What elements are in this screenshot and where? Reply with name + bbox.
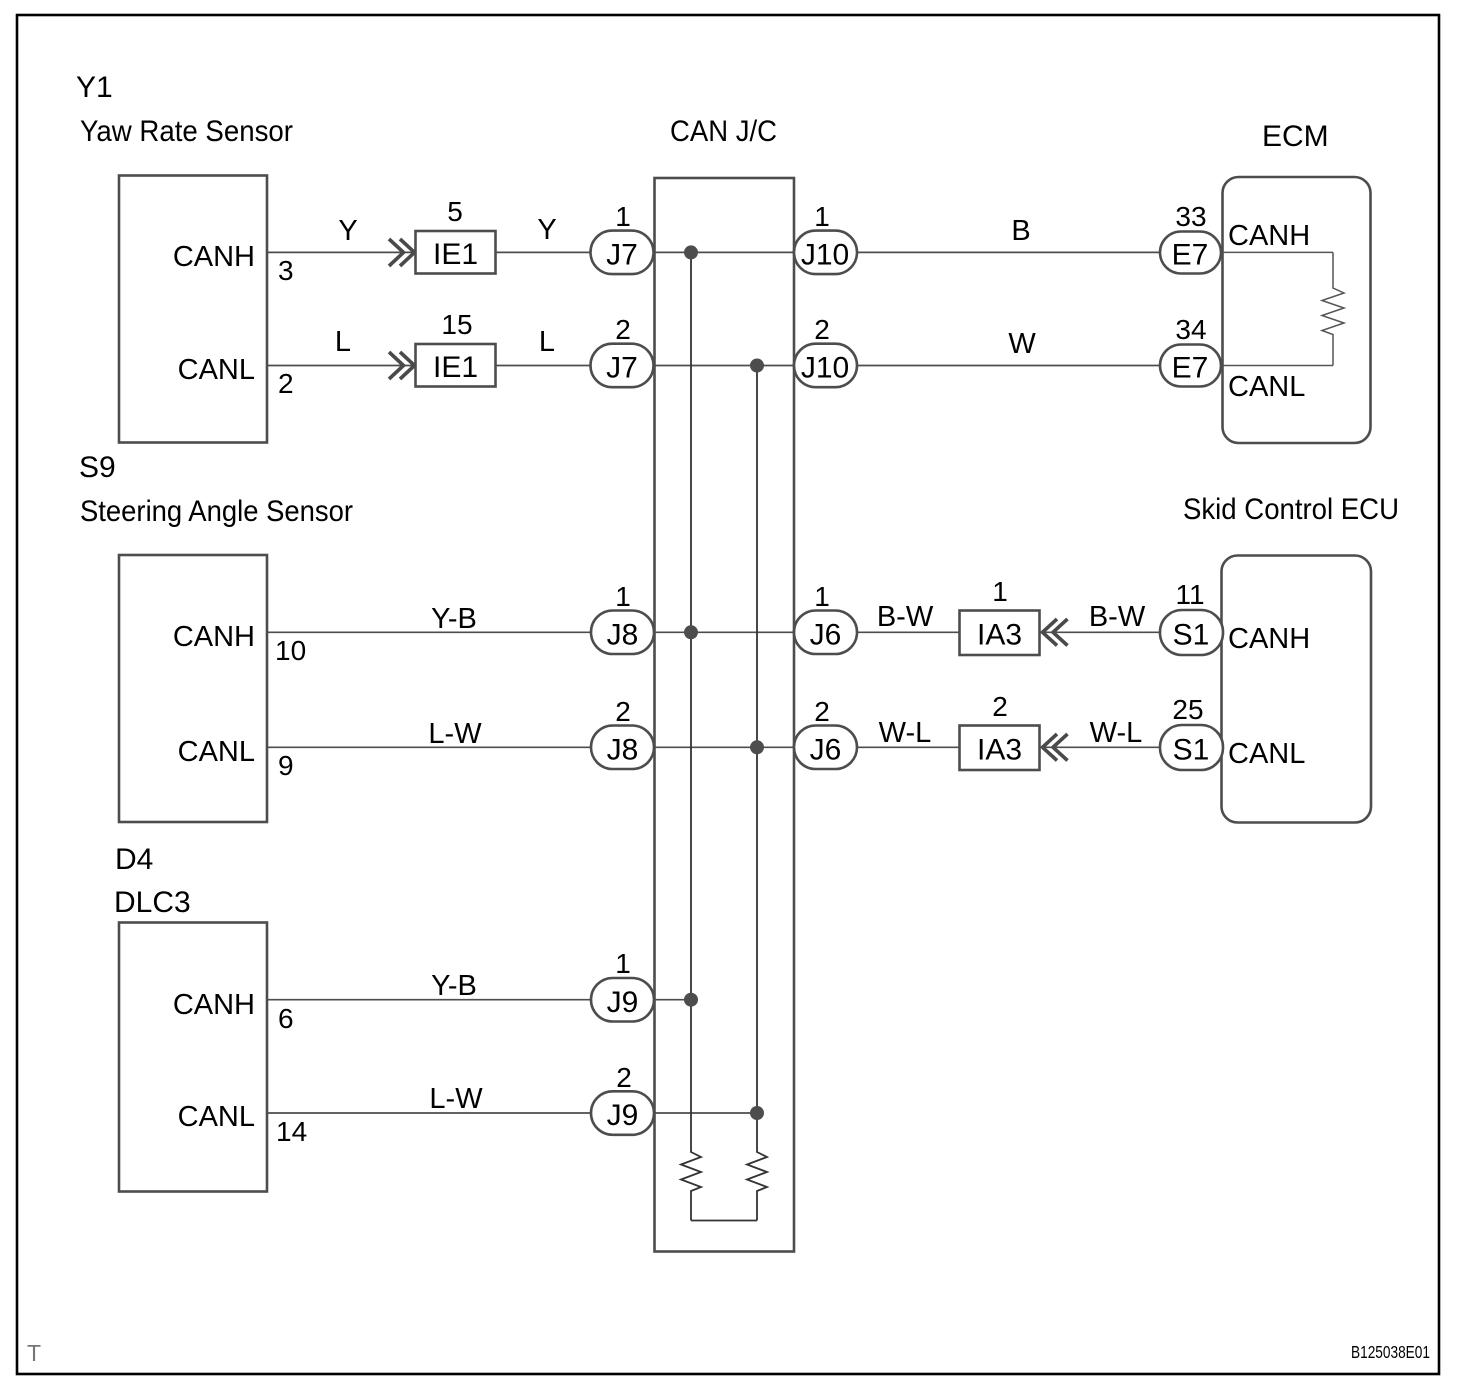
wire inside ECM resistor to CANL [1221,365,1333,367]
svg-text:J9: J9 [607,1099,639,1132]
junction IA3 pin 1 box [960,611,1040,656]
svg-text:ECM: ECM [1262,120,1329,153]
svg-text:15: 15 [441,309,472,340]
wire J6 pin 1 to IA3 [857,631,960,633]
svg-text:5: 5 [447,196,463,227]
svg-text:CANH: CANH [1228,220,1310,252]
wire IE1 to J7 pin 2 [496,365,592,367]
wire DLC3 CANH to J9 pin 1 [267,999,591,1001]
terminal S1 pin 25 [1160,725,1223,770]
svg-text:Y-B: Y-B [431,970,477,1002]
wire inside CAN J/C row 6 [654,1112,758,1114]
svg-text:CANL: CANL [178,354,255,386]
junction terminal J10 pin 2 [794,344,857,388]
junction terminal J7 pin 2 [591,344,654,388]
svg-text:Y: Y [338,215,357,247]
wire inside CAN J/C row 3 [654,631,795,633]
wire Y1 CANL to IE1 [267,365,416,367]
male connector arrows into IE1 row 2 [389,352,415,379]
junction IA3 pin 2 box [960,726,1040,771]
svg-text:L: L [335,326,351,358]
svg-text:T: T [27,1340,41,1366]
svg-text:B-W: B-W [877,601,934,633]
svg-text:W: W [1008,328,1036,360]
svg-text:2: 2 [615,314,631,345]
wire IA3 to S1 pin 25 [1040,746,1160,748]
svg-text:IA3: IA3 [977,733,1022,766]
wire inside CAN J/C row 2 [654,365,795,367]
svg-text:3: 3 [278,255,294,286]
svg-text:2: 2 [814,696,830,727]
wire inside CAN J/C row 1 [654,251,795,253]
svg-text:B125038E01: B125038E01 [1351,1342,1430,1362]
svg-text:CANH: CANH [173,241,255,273]
svg-text:S9: S9 [79,451,116,484]
svg-text:CANL: CANL [178,1101,255,1133]
svg-text:J6: J6 [810,618,842,651]
svg-text:2: 2 [278,368,294,399]
svg-text:IA3: IA3 [977,618,1022,651]
junction terminal J8 pin 2 [591,726,654,770]
svg-text:14: 14 [276,1116,307,1147]
svg-text:J7: J7 [606,239,638,272]
junction terminal J6 pin 1 [794,611,857,655]
junction connector CAN J/C box [655,178,795,1252]
wire J10 pin 1 to ECM E7 pin 33 [857,251,1160,253]
junction terminal J7 pin 1 [591,231,654,275]
svg-text:E7: E7 [1172,352,1209,385]
svg-text:1: 1 [814,581,830,612]
svg-text:IE1: IE1 [433,351,478,384]
svg-text:1: 1 [615,581,631,612]
terminating resistor inside ECM [1322,252,1344,365]
svg-text:2: 2 [615,696,631,727]
svg-text:J8: J8 [607,618,639,651]
svg-text:J6: J6 [810,733,842,766]
svg-text:10: 10 [275,635,306,666]
terminal S1 pin 11 [1160,610,1223,655]
svg-text:CANH: CANH [1228,623,1310,655]
svg-text:25: 25 [1172,694,1203,725]
junction terminal J9 pin 1 [591,978,654,1022]
junction terminal J8 pin 1 [591,611,654,655]
svg-text:9: 9 [278,750,294,781]
female connector arrows into IA3 row 4 [1043,734,1068,761]
svg-text:L-W: L-W [428,718,482,750]
male connector arrows into IE1 row 1 [389,239,415,266]
svg-text:Y-B: Y-B [431,603,477,635]
wire IA3 to S1 pin 11 [1040,631,1160,633]
node CANL bus / J6 row 4 [750,740,764,754]
svg-text:1: 1 [814,201,830,232]
svg-text:CANL: CANL [1228,738,1305,770]
svg-text:Steering Angle Sensor: Steering Angle Sensor [80,495,353,528]
node CANH bus / J9 row 5 [684,993,698,1007]
svg-text:Y1: Y1 [76,71,113,104]
svg-text:2: 2 [992,691,1008,722]
svg-text:CAN J/C: CAN J/C [670,115,777,148]
terminal E7 pin 33 [1160,232,1221,274]
connector S9 Steering Angle Sensor box [119,555,267,822]
svg-text:Skid Control ECU: Skid Control ECU [1183,493,1399,526]
wire S9 CANH to J8 pin 1 [267,631,591,633]
wire Y1 CANH to IE1 [267,251,416,253]
junction IE1 pin 15 box [416,344,496,387]
svg-text:1: 1 [615,948,631,979]
svg-text:11: 11 [1175,579,1204,610]
svg-text:L-W: L-W [429,1083,483,1115]
svg-text:Y: Y [537,214,556,246]
ECU box Skid Control ECU [1222,556,1372,823]
svg-text:2: 2 [616,1062,632,1093]
junction terminal J9 pin 2 [591,1091,654,1135]
junction terminal J10 pin 1 [794,231,857,275]
svg-text:S1: S1 [1173,733,1210,766]
wire J10 pin 2 to ECM E7 pin 34 [857,365,1160,367]
svg-text:6: 6 [278,1003,294,1034]
svg-text:E7: E7 [1172,239,1209,272]
svg-text:J10: J10 [801,239,849,272]
svg-text:D4: D4 [115,843,153,876]
wire DLC3 CANL to J9 pin 2 [267,1112,591,1114]
svg-text:B: B [1011,215,1030,247]
wire S9 CANL to J8 pin 2 [267,746,591,748]
node CANH bus / J7 row 1 [684,245,698,259]
svg-text:J8: J8 [607,733,639,766]
svg-text:1: 1 [992,576,1008,607]
wire joining resistors at bottom [691,1220,757,1222]
svg-text:S1: S1 [1173,618,1210,651]
svg-text:W-L: W-L [1090,717,1143,749]
junction IE1 pin 5 box [416,231,496,274]
node CANH bus / J8 row 3 [684,625,698,639]
svg-text:J9: J9 [607,986,639,1019]
svg-text:CANL: CANL [1228,371,1305,403]
female connector arrows into IA3 row 3 [1043,619,1068,646]
wire inside ECM CANH to resistor [1221,251,1333,253]
junction terminal J6 pin 2 [794,726,857,770]
svg-text:CANH: CANH [173,989,255,1021]
svg-text:B-W: B-W [1089,601,1146,633]
svg-text:33: 33 [1175,201,1206,232]
svg-text:1: 1 [615,201,631,232]
wire IE1 to J7 pin 1 [496,251,592,253]
svg-text:Yaw Rate Sensor: Yaw Rate Sensor [80,115,293,148]
svg-text:J10: J10 [801,352,849,385]
wire inside CAN J/C row 5 [654,999,692,1001]
svg-text:W-L: W-L [879,717,932,749]
svg-text:CANH: CANH [173,621,255,653]
node CANL bus / J9 row 6 [750,1106,764,1120]
wire J6 pin 2 to IA3 [857,746,960,748]
svg-text:CANL: CANL [178,736,255,768]
svg-text:2: 2 [814,314,830,345]
CANL bus line with terminating resistor (right) [747,366,767,1221]
connector Y1 Yaw Rate Sensor box [119,176,267,443]
terminal E7 pin 34 [1160,345,1221,387]
ECU box ECM [1223,177,1371,443]
node CANL bus / J10 row 2 [750,359,764,373]
wire inside CAN J/C row 4 [654,746,795,748]
svg-text:L: L [539,326,555,358]
connector D4 DLC3 box [119,923,267,1192]
svg-text:34: 34 [1175,314,1206,345]
svg-text:IE1: IE1 [433,238,478,271]
svg-text:J7: J7 [606,352,638,385]
svg-text:DLC3: DLC3 [114,886,191,919]
CANH bus line with terminating resistor (left) [681,252,701,1220]
